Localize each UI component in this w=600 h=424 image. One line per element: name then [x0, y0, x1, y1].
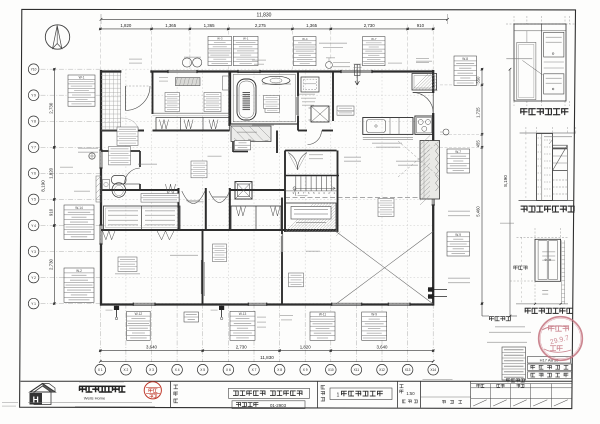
svg-text:W-14: W-14 — [75, 206, 83, 210]
entry/porch divider x=152.5 — [152, 71, 154, 114]
wall stubs at hall doors — [178, 188, 180, 230]
svg-text:11,830: 11,830 — [257, 13, 272, 19]
svg-text:W-9: W-9 — [455, 233, 461, 237]
title block frame — [21, 380, 573, 382]
scale cell — [400, 384, 404, 386]
bedroom/closet bottom wall y=230 — [101, 229, 336, 231]
approval table — [470, 381, 472, 407]
panel2 label — [544, 136, 572, 138]
svg-text:455: 455 — [475, 140, 480, 148]
bath counter basin oval — [262, 76, 290, 84]
north arrow compass — [45, 25, 69, 49]
svg-text:Y 3: Y 3 — [31, 250, 36, 254]
room label toilet — [109, 147, 131, 165]
svg-text:X14: X14 — [430, 368, 436, 372]
small 2-row box bottom — [184, 312, 199, 322]
svg-text:Y 1: Y 1 — [31, 302, 36, 306]
svg-text:W-7: W-7 — [371, 37, 377, 41]
svg-text:Y 4: Y 4 — [31, 224, 36, 228]
outer wall top — [100, 70, 121, 72]
notes table — [502, 347, 526, 380]
tv outlet circle right wall — [443, 129, 449, 135]
panel3 title — [525, 307, 531, 309]
svg-text:2,730: 2,730 — [236, 344, 248, 349]
hall closet bifold — [166, 184, 176, 196]
room label bath — [264, 96, 280, 109]
svg-text:910: 910 — [48, 208, 53, 216]
big red approval stamp — [539, 317, 583, 361]
closet label above stairs — [309, 154, 323, 156]
svg-text:W-9: W-9 — [371, 313, 377, 317]
porch tile grid — [104, 73, 106, 131]
genkan corner box — [223, 76, 230, 90]
designer cell — [423, 379, 453, 381]
svg-text:Y10: Y10 — [31, 68, 37, 72]
cabinet panel 1: washroom storage — [513, 16, 515, 24]
panel3 under-dim — [542, 290, 548, 292]
svg-text:11,830: 11,830 — [260, 355, 274, 360]
svg-text:2,730: 2,730 — [48, 258, 53, 270]
left dimension chain — [53, 69, 55, 303]
svg-text:3,640: 3,640 — [146, 344, 158, 349]
logo company name (katakana) — [79, 381, 124, 383]
svg-text:X11: X11 — [354, 368, 360, 372]
side note 5460 leader — [500, 222, 514, 224]
panel3 side label — [514, 265, 518, 267]
stamp boxes — [528, 357, 571, 364]
toilet door arc — [124, 168, 140, 184]
svg-text:X 9: X 9 — [303, 368, 308, 372]
porch opening edge lines — [120, 70, 122, 72]
svg-text:01-2903: 01-2903 — [270, 403, 287, 408]
cooktop — [415, 116, 433, 134]
svg-text:W-11: W-11 — [319, 313, 327, 317]
washroom right wall x=333 — [332, 71, 334, 121]
X axis grid circles X1-X14 — [95, 364, 106, 375]
bedroom closet row — [104, 206, 181, 230]
hall/bedroom wall y=190 — [101, 189, 178, 191]
room label LDK — [378, 199, 394, 217]
panel2 dashed guides — [525, 127, 527, 133]
svg-text:X10: X10 — [328, 368, 334, 372]
svg-text:1,725: 1,725 — [475, 107, 480, 118]
washstand X-box — [311, 106, 329, 122]
svg-text:8,190: 8,190 — [503, 175, 508, 187]
room label hall — [204, 93, 221, 112]
closet double-swing doors — [288, 153, 297, 170]
stairs treads — [295, 176, 297, 191]
exterior hatch strip left of toilet — [96, 176, 101, 202]
tall counter hatched strip — [420, 141, 440, 200]
client cell — [174, 384, 179, 386]
top segment dimensions — [100, 28, 433, 30]
stair mid wall — [285, 175, 339, 177]
svg-text:Y 2: Y 2 — [31, 276, 36, 280]
room label genkan — [165, 93, 180, 112]
room label washitsu — [213, 244, 227, 262]
washitsu right wall x=282 — [281, 198, 283, 235]
svg-text:1,365: 1,365 — [204, 23, 216, 28]
svg-text:X13: X13 — [405, 368, 411, 372]
svg-text:Y 9: Y 9 — [31, 94, 36, 98]
svg-text:W-1: W-1 — [243, 37, 249, 41]
svg-text:1: 1 — [337, 393, 340, 399]
svg-text:1,365: 1,365 — [165, 23, 177, 28]
hall label box — [191, 161, 207, 178]
panel1 title — [520, 108, 527, 110]
cabinet panel 3: kitchen hanging storage — [517, 236, 568, 238]
room label kitchen note — [337, 106, 354, 115]
outer wall right — [432, 70, 434, 93]
utility circle + tv note — [326, 62, 333, 69]
left small labels — [78, 147, 98, 149]
second closet row — [231, 206, 281, 230]
svg-text:1,365: 1,365 — [306, 23, 318, 28]
right spec boxes — [454, 56, 477, 85]
tiny labels above top wall — [129, 58, 142, 60]
refrigerator hatched — [412, 74, 437, 91]
panel3 right ladder — [561, 240, 563, 304]
hall door arc A — [182, 191, 205, 204]
room label washroom small — [301, 97, 316, 99]
hall door arc B — [209, 191, 230, 203]
right wall door arc — [432, 93, 434, 114]
vent arrow on kitchen top wall — [355, 65, 361, 76]
toilet — [112, 176, 127, 185]
small red stamp — [144, 382, 161, 399]
unit bath enclosure — [231, 72, 298, 124]
svg-text:1,820: 1,820 — [120, 23, 132, 28]
svg-text:Y 6: Y 6 — [31, 172, 36, 176]
svg-text:910: 910 — [417, 23, 425, 28]
closet bifold symbols — [103, 231, 116, 240]
drawing name cell — [321, 385, 325, 387]
toilet corner basin — [103, 180, 110, 190]
outer wall bottom — [100, 303, 133, 305]
svg-text:W-8: W-8 — [462, 57, 468, 61]
bottom overall dimension 11,830 — [100, 360, 433, 362]
LDK top wall dashed — [285, 197, 433, 199]
washroom door arc — [308, 131, 322, 145]
porch step corner arc — [121, 118, 139, 130]
svg-text:Y 8: Y 8 — [31, 120, 36, 124]
vent arrows — [428, 287, 447, 291]
svg-text:8,190: 8,190 — [41, 180, 46, 192]
svg-text:X12: X12 — [379, 368, 385, 372]
svg-text:X 7: X 7 — [252, 368, 257, 372]
svg-text:W-4: W-4 — [302, 37, 308, 41]
svg-text:5,460: 5,460 — [475, 206, 480, 217]
axis extension lines — [41, 303, 101, 305]
svg-text:X 2: X 2 — [124, 368, 129, 372]
tub grab texture — [243, 92, 251, 94]
module grid — [99, 69, 101, 303]
outer wall left — [100, 70, 102, 150]
panel2 title — [521, 205, 528, 207]
toilet room walls — [101, 150, 140, 152]
bath/washroom divider x=298 — [297, 71, 299, 96]
svg-text:W-13: W-13 — [239, 312, 247, 316]
svg-text:X 1: X 1 — [98, 368, 103, 372]
svg-text:Wells Home: Wells Home — [84, 396, 106, 401]
svg-text:W-7: W-7 — [455, 150, 461, 154]
stairs-top small box — [235, 141, 251, 150]
svg-text:W-1: W-1 — [79, 76, 85, 80]
bath block left wall x=229.5 — [228, 71, 230, 126]
Y axis grid circles Y1-Y10 — [28, 298, 39, 309]
right dimension chain — [481, 69, 483, 316]
svg-text:H: H — [33, 395, 39, 405]
svg-text:X 3: X 3 — [149, 368, 154, 372]
small 2-row box kitchen top — [354, 63, 362, 65]
room label bedroom — [118, 257, 137, 271]
svg-text:X 8: X 8 — [277, 368, 282, 372]
supply vent arrows below bottom wall — [114, 306, 119, 310]
svg-text:X 5: X 5 — [200, 368, 205, 372]
bottom spec boxes — [127, 311, 151, 340]
entry door arc — [125, 86, 127, 111]
top spec boxes row — [208, 36, 232, 65]
hall upper label box — [117, 127, 138, 145]
svg-text:X 6: X 6 — [226, 368, 231, 372]
special notes — [489, 316, 494, 318]
svg-text:W-12: W-12 — [135, 312, 143, 316]
free texts in plan — [141, 194, 179, 203]
stair block walls — [284, 151, 286, 233]
svg-text:X 4: X 4 — [175, 368, 180, 372]
bath label box — [265, 96, 280, 112]
svg-text:W-2: W-2 — [76, 269, 82, 273]
svg-text:2,275: 2,275 — [255, 23, 267, 28]
pair of utility circles — [182, 58, 191, 67]
stair hall top wall — [285, 150, 337, 152]
genkan shoe cabinet — [176, 78, 201, 86]
bathtub — [237, 79, 256, 120]
washitsu divider door marks — [203, 262, 205, 296]
right small labels — [448, 210, 470, 212]
entry step line — [153, 112, 230, 114]
svg-text:W-3: W-3 — [217, 37, 223, 41]
washing machine — [301, 77, 319, 92]
svg-text:2,730: 2,730 — [48, 102, 53, 114]
panel1 counter label + leader — [506, 58, 532, 60]
left spec boxes — [68, 75, 95, 106]
bottom segment dimensions — [100, 350, 433, 352]
svg-text:1,820: 1,820 — [48, 167, 53, 179]
svg-text:2,730: 2,730 — [364, 23, 376, 28]
washroom lower-left wall — [276, 131, 278, 154]
svg-text:Y 7: Y 7 — [31, 146, 36, 150]
L wall below storage — [232, 142, 234, 153]
entry closet — [156, 118, 230, 131]
logo house icon — [30, 384, 55, 393]
inspection hatch square — [235, 182, 252, 200]
top overall dimension 11,830 — [101, 18, 448, 20]
svg-text:Y 5: Y 5 — [31, 198, 36, 202]
svg-text:3,640: 3,640 — [377, 344, 389, 349]
interior wall main horizontal y=130 — [101, 130, 144, 132]
LDK diagonal cross — [336, 232, 433, 305]
kitchen counter — [363, 118, 413, 135]
bedroom/washitsu divider x=202.5 — [202, 230, 204, 305]
indoor drying hatched box — [286, 203, 337, 232]
left edge tiny text — [2, 402, 18, 404]
cabinet panel 2: corridor washroom storage — [520, 132, 576, 134]
washitsu sliding door — [282, 234, 284, 252]
note text above bath — [319, 42, 347, 44]
bath bottom storage hatched — [231, 126, 271, 142]
svg-text:1:50: 1:50 — [406, 391, 415, 396]
svg-text:1,820: 1,820 — [300, 344, 312, 349]
